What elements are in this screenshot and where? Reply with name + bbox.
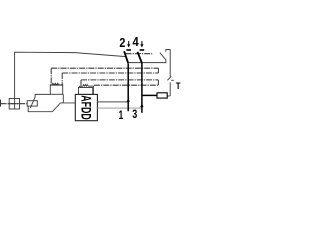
- svg-text:AFDD: AFDD: [78, 95, 94, 119]
- svg-text:T: T: [176, 81, 181, 92]
- svg-text:2: 2: [119, 36, 125, 50]
- svg-text:4: 4: [133, 35, 139, 49]
- svg-text:1: 1: [119, 108, 124, 122]
- svg-text:3: 3: [132, 107, 137, 121]
